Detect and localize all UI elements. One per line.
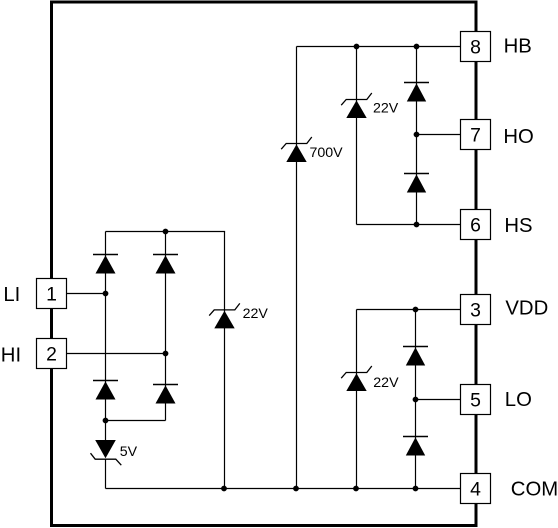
svg-text:22V: 22V	[243, 306, 269, 322]
pin 8 box	[461, 32, 491, 62]
wire bottom link x165 to x105	[106, 420, 166, 422]
svg-text:COM: COM	[511, 479, 558, 501]
svg-text:7: 7	[470, 124, 481, 146]
svg-text:2: 2	[46, 343, 57, 365]
wire LI to node	[67, 293, 106, 295]
wire HB diode branch	[416, 47, 418, 225]
svg-text:6: 6	[470, 214, 481, 236]
node COM rail / 700V branch	[293, 486, 299, 492]
diode D2 (HO-HS)	[404, 174, 429, 193]
svg-text:4: 4	[470, 478, 481, 500]
pin 6 box	[461, 210, 491, 240]
svg-text:700V: 700V	[310, 145, 344, 161]
node LI junction	[103, 291, 109, 297]
node HB rail / diode branch	[414, 44, 420, 50]
diode D1 (HB-HO)	[404, 83, 429, 102]
svg-text:8: 8	[470, 36, 481, 58]
diode D3 (VDD-LO)	[403, 347, 428, 366]
wire VDD rail	[357, 309, 461, 311]
wire left zener branch	[224, 232, 226, 489]
IC outline	[52, 2, 477, 526]
svg-text:VDD: VDD	[505, 297, 548, 319]
zener Z3 22V (VDD-COM)	[341, 366, 372, 391]
node HI junction	[163, 351, 169, 357]
wire branch x165	[165, 232, 167, 421]
svg-text:LO: LO	[505, 389, 532, 411]
wire top 22V zener branch	[356, 47, 358, 225]
svg-text:HB: HB	[504, 36, 532, 58]
pin 3 box	[461, 295, 491, 325]
wire HB rail	[297, 46, 461, 48]
wire branch x105	[105, 232, 107, 441]
wire top rail left network	[106, 231, 226, 233]
svg-text:5: 5	[470, 389, 481, 411]
zener Z1 22V (left network)	[209, 303, 240, 328]
node VDD	[413, 307, 419, 313]
node bottom link junction	[103, 418, 109, 424]
wire bottom 22V zener branch	[356, 310, 358, 489]
diode D7 (lower left pair, LI branch)	[93, 381, 118, 400]
pin 2 box	[37, 339, 67, 369]
svg-text:HO: HO	[503, 126, 533, 148]
svg-text:LI: LI	[3, 284, 20, 306]
svg-text:22V: 22V	[373, 375, 399, 391]
pin 7 box	[461, 120, 491, 150]
wire HO stub	[417, 134, 461, 136]
diode D4 (LO-COM)	[403, 437, 428, 456]
diode D6 (upper left pair, HI branch)	[153, 255, 178, 274]
diode D8 (lower left pair, HI branch)	[153, 385, 178, 404]
node COM rail / left zener	[221, 486, 227, 492]
diode D5 (upper left pair, LI branch)	[93, 255, 118, 274]
svg-text:HI: HI	[1, 344, 21, 366]
wire LO stub	[416, 399, 461, 401]
node COM rail / 22V branch	[353, 486, 359, 492]
wire COM bottom rail	[106, 488, 461, 490]
node LO	[413, 397, 419, 403]
wire HI to node	[67, 353, 166, 355]
svg-text:HS: HS	[504, 215, 532, 237]
wire HS rail	[357, 224, 461, 226]
pin 1 box	[37, 279, 67, 309]
node HB rail / zener branch	[354, 44, 360, 50]
wire 700V branch	[296, 47, 298, 489]
pin 4 box	[461, 474, 491, 504]
svg-text:5V: 5V	[120, 444, 138, 460]
node HS	[414, 222, 420, 228]
svg-text:1: 1	[46, 283, 57, 305]
svg-text:22V: 22V	[373, 100, 399, 116]
zener Z5 5V (pointing down)	[91, 440, 122, 465]
svg-text:3: 3	[470, 299, 481, 321]
node top rail junction	[163, 229, 169, 235]
node HO	[414, 132, 420, 138]
pin 5 box	[461, 385, 491, 415]
node COM rail / diode branch	[413, 486, 419, 492]
zener Z2 22V (HB-HS)	[341, 93, 372, 118]
zener Z4 700V	[281, 137, 312, 162]
wire VDD diode branch	[415, 310, 417, 489]
wire branch x105 below 5V zener	[105, 459, 107, 488]
